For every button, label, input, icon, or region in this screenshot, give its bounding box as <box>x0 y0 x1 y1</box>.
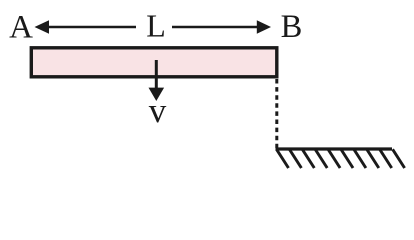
dashed drop line below B <box>275 79 278 148</box>
ground hatching <box>277 149 405 168</box>
rod AB <box>31 48 276 77</box>
velocity arrow v <box>149 60 165 101</box>
svg-text:A: A <box>9 10 33 46</box>
dimension arrow left segment (toward A) <box>35 20 137 34</box>
svg-text:v: v <box>149 91 167 130</box>
svg-text:L: L <box>146 8 166 44</box>
ground line <box>276 147 393 150</box>
svg-text:B: B <box>281 9 303 45</box>
dimension arrow right segment (toward B) <box>172 20 271 34</box>
